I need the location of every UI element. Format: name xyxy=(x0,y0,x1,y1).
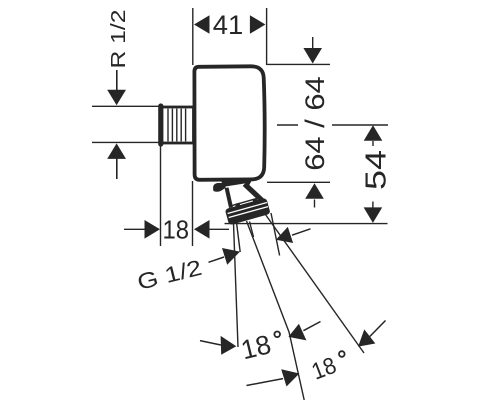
54 down stem xyxy=(372,202,374,208)
angle dim 2 upper arrow xyxy=(358,329,375,346)
line N nozzle-face extension xyxy=(225,223,388,225)
angle dim 1 degree circle xyxy=(274,332,280,338)
leader arrow onto LX xyxy=(276,227,293,243)
line T top extension xyxy=(267,63,330,65)
54 up stem xyxy=(372,141,374,146)
54 up arrow xyxy=(364,125,383,141)
thread lines xyxy=(168,109,186,142)
angle dim 2 upper tail xyxy=(370,321,386,337)
label G1/2 arrow xyxy=(222,248,240,265)
dim 41 right arrow xyxy=(250,15,266,34)
nozzle collar left bar xyxy=(227,188,231,208)
nozzle collar white quad xyxy=(226,183,264,210)
dim 18 right ext line xyxy=(192,181,194,246)
spray line stub G (to G1/2 arrow) xyxy=(236,217,240,252)
spray line L4 xyxy=(263,212,364,354)
angle dim 1 left arrow xyxy=(221,336,237,355)
nozzle collar seam xyxy=(230,199,254,206)
64/64 top stem xyxy=(312,37,314,52)
dim 41 right extension line xyxy=(266,8,268,65)
nut stripe 2 xyxy=(229,207,268,218)
svg-text:64 / 64: 64 / 64 xyxy=(300,76,330,171)
dim 18 left ext line xyxy=(160,144,162,246)
neck hook under body xyxy=(213,183,233,192)
angle dim 2 lower arrow xyxy=(281,369,299,386)
line B bottom extension xyxy=(267,181,330,183)
leader tail for LX arrow xyxy=(292,229,311,235)
nozzle nut xyxy=(224,195,271,225)
svg-text:18: 18 xyxy=(163,215,190,245)
dim R1/2 down arrow xyxy=(107,90,126,106)
dim R1/2 leader below xyxy=(116,159,118,180)
nozzle neck dark merge xyxy=(221,181,252,189)
angle dim 2 degree circle xyxy=(339,351,345,357)
dim 41 left arrow xyxy=(194,15,210,34)
64/64 bottom stem xyxy=(314,200,316,208)
angle dim 2 lower tail xyxy=(247,379,284,386)
nut stripe 1 xyxy=(228,203,267,214)
dim 18 right tail xyxy=(208,228,229,230)
dim R1/2 up arrow xyxy=(107,143,126,159)
spray line L2 xyxy=(247,221,305,400)
64/64 up arrow xyxy=(305,183,324,199)
nut tab 1 xyxy=(235,203,240,208)
svg-text:41: 41 xyxy=(213,10,244,40)
line M mid extension xyxy=(277,124,388,126)
spray line stub A xyxy=(250,222,254,238)
dim 41 left extension line xyxy=(192,8,194,65)
dim 18 left tail xyxy=(124,228,146,230)
spray line LX xyxy=(271,213,280,256)
dim 18 right arrow xyxy=(194,220,210,239)
nozzle collar right edge xyxy=(245,184,263,201)
angle dim 1 left tail xyxy=(200,341,221,345)
dim R1/2 leader above xyxy=(116,70,118,91)
angle dim 1 right tail xyxy=(303,322,320,331)
threaded stub R1/2 outline xyxy=(161,106,194,144)
64/64 down arrow xyxy=(303,48,322,64)
dim 18 left arrow xyxy=(145,220,161,239)
54 down arrow xyxy=(364,207,383,223)
svg-text:54: 54 xyxy=(361,150,393,190)
wall plate body xyxy=(194,66,264,180)
label G1/2 leader xyxy=(209,257,225,262)
angle dim 1 right arrow xyxy=(288,324,306,341)
spray line L1 (near vertical) xyxy=(234,223,239,347)
dim R1/2 ext line top xyxy=(92,105,159,107)
svg-text:R 1/2: R 1/2 xyxy=(107,10,130,69)
dim R1/2 ext line bottom xyxy=(92,141,159,143)
nut tab 2 xyxy=(252,198,257,203)
